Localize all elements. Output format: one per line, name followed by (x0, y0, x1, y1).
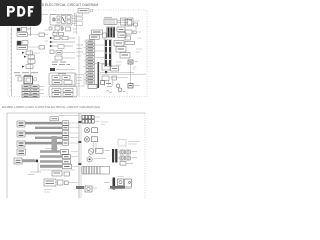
PDF badge label letter P (7, 6, 15, 17)
connector table rows (22, 85, 44, 98)
PDF badge (0, 0, 42, 26)
ECU box right of pin columns (102, 64, 117, 81)
right edge relay boxes column (75, 13, 83, 26)
bottom middle terminal box (44, 179, 78, 186)
relay group box K2 (49, 87, 77, 98)
right side small dark modules (128, 60, 140, 88)
upper connector pair above strip (90, 30, 103, 39)
lower-left connector box (17, 149, 26, 155)
terminal strip stubs (84, 41, 87, 79)
small box left of blob (103, 33, 107, 38)
dense connector blob (barcode) (107, 27, 115, 38)
faint component right middle (118, 140, 126, 147)
two relay boxes top right (121, 18, 134, 25)
left connector group A (below badge) (17, 27, 45, 36)
tiny wire labels mid bus (73, 29, 83, 56)
bottom right motor cluster (104, 177, 132, 190)
left switch column rows (22, 50, 40, 78)
lower-left sensor box with harness (14, 158, 22, 164)
right cluster: twin dark connector bars (112, 149, 117, 163)
left connector group B (17, 41, 45, 50)
key switch group S1 (50, 15, 72, 26)
faint bottom-left marks (44, 190, 52, 193)
squiggle + marks bottom right of top diagram (106, 90, 126, 93)
left connector blocks with harness bundles (17, 121, 25, 147)
stub wires to bus (45, 30, 49, 41)
junction box above wires (111, 66, 119, 71)
relay bank top middle (82, 116, 100, 124)
central dark pin column bus (98, 62, 100, 88)
mid right sensor circles (87, 149, 110, 162)
switch row y56 (50, 50, 75, 60)
wires from bundle boxes to bus (59, 116, 80, 144)
wires from key switch to bus (72, 16, 77, 24)
boxes right of blob (117, 27, 126, 37)
fuse rows with arrows (50, 36, 75, 48)
relay group box K1 (49, 73, 76, 85)
diode row cluster upper mid (56, 51, 75, 55)
lower-mid harness rows (40, 149, 78, 169)
diode and wire above relay group (50, 68, 55, 71)
motor circles with X (84, 128, 97, 153)
wires across top right (117, 21, 140, 23)
PDF badge label letter F (28, 6, 34, 17)
crossing wires strip to pins (95, 45, 105, 64)
long wire above label box (40, 169, 75, 171)
vertical harness down from bundles (52, 136, 58, 152)
top diagram dashed frame (8, 10, 147, 97)
bus junction dark segments (78, 121, 81, 123)
harness bundle bars (25, 122, 62, 145)
top label box on bundle column (50, 117, 59, 121)
central terminal strip rows (86, 40, 95, 84)
pin column pair (105, 40, 107, 66)
right mid cluster: stacked module boxes (114, 41, 142, 59)
far right cluster boxes (125, 20, 141, 45)
bus end connector (76, 186, 84, 189)
left bus wire with stub ticks (10, 27, 12, 96)
bottom diagram frame (7, 112, 145, 114)
long wires to right border (100, 73, 146, 86)
label box lower mid (52, 171, 70, 176)
faint distribution box mid (75, 75, 85, 87)
wire label dashes row y62 (52, 62, 70, 65)
svg-text:EC480D L/480D L/1200 L/1700-5: EC480D L/480D L/1200 L/1700-5 ELECTRICAL… (2, 105, 100, 109)
hatched harness block (82, 167, 110, 175)
breaker double box (18, 76, 37, 84)
main vertical bus pair (78, 113, 80, 198)
faint module label text upper mid (40, 14, 56, 16)
gauges cluster bottom of dense column (88, 81, 122, 92)
PDF badge label letter D (17, 6, 25, 17)
lamp pairs rows (118, 150, 138, 165)
svg-text:5 ELECTRICAL CIRCUIT DIAGRAM: 5 ELECTRICAL CIRCUIT DIAGRAM (42, 3, 98, 7)
bundle right end connector boxes (63, 121, 69, 145)
connector J1 on top border (78, 9, 93, 14)
top-right connector box with pins (104, 17, 117, 24)
mid bus vertical wire (78, 36, 80, 96)
faint labels right mid (112, 62, 122, 69)
dark bar lower right (110, 186, 125, 188)
faint note text mid right (101, 122, 109, 125)
annotation dashes row (14, 73, 38, 75)
battery sub-cluster below key switch (49, 26, 71, 36)
